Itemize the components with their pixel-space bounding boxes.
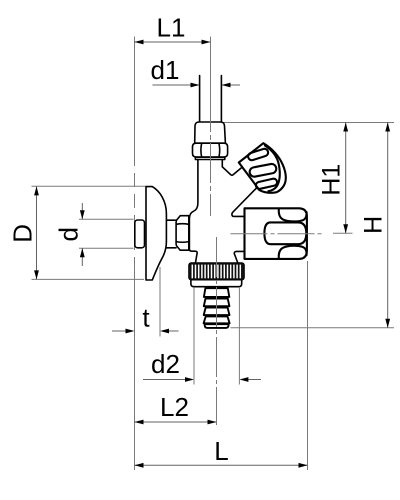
svg-text:H1: H1 <box>318 164 346 196</box>
knurled cap (bottom) <box>189 263 245 280</box>
svg-text:L2: L2 <box>160 392 189 422</box>
centerline bottom outlet (over drawing) <box>216 237 218 425</box>
left hex nut <box>176 216 189 251</box>
nut facets <box>201 143 220 156</box>
svg-text:L: L <box>214 436 228 466</box>
dimension L2 <box>135 421 217 423</box>
svg-text:D: D <box>8 224 38 243</box>
centerline right branch (over drawing) <box>231 233 323 235</box>
top hex nut <box>193 143 228 157</box>
dimension d1 <box>153 84 200 86</box>
right knob (handwheel) <box>245 208 307 259</box>
diagonal knob top recess <box>247 148 269 161</box>
diagonal shoulder and upper stem <box>222 167 242 175</box>
diagonal knob inner rim <box>265 146 280 192</box>
body tube <box>189 160 198 263</box>
dimension H1 / H top extension <box>222 122 394 124</box>
svg-text:d: d <box>54 227 84 241</box>
svg-text:d1: d1 <box>151 55 180 85</box>
svg-text:H: H <box>360 216 388 234</box>
dimension H <box>387 123 389 328</box>
rosette (wall escutcheon) <box>146 187 166 280</box>
lower stem / foot <box>232 188 256 216</box>
dimension L <box>307 261 309 470</box>
left stub pipe <box>135 220 145 248</box>
svg-text:d2: d2 <box>151 349 180 379</box>
dimension d <box>79 218 134 220</box>
extension line wall (dashed) <box>134 37 136 153</box>
neck between rosette and nut <box>167 220 177 248</box>
dimension d2 <box>143 379 186 381</box>
dimension D <box>32 185 146 187</box>
svg-text:L1: L1 <box>157 13 186 43</box>
svg-text:t: t <box>142 303 150 333</box>
extension line top pipe center <box>210 37 212 93</box>
centerline top body (dash-dot, over drawing) <box>210 92 212 216</box>
H1 bottom extension <box>333 232 353 234</box>
hose barb <box>204 288 230 328</box>
body bottom bracket right <box>234 251 244 262</box>
diagonal knob middle recess <box>249 163 277 177</box>
knob top recess <box>279 209 307 221</box>
H bottom extension <box>231 327 395 329</box>
top pipe <box>200 76 222 123</box>
dimension H1 <box>345 123 347 234</box>
washer under nut <box>195 157 224 159</box>
diagonal knob bottom recess <box>255 178 278 190</box>
collar under knurl <box>191 280 242 287</box>
knob bottom recess <box>279 246 307 258</box>
dimension t <box>112 330 126 332</box>
compression cap <box>195 122 226 143</box>
diagonal knob <box>239 143 286 193</box>
knob middle recess <box>264 222 306 244</box>
dimension L1 <box>135 41 211 43</box>
